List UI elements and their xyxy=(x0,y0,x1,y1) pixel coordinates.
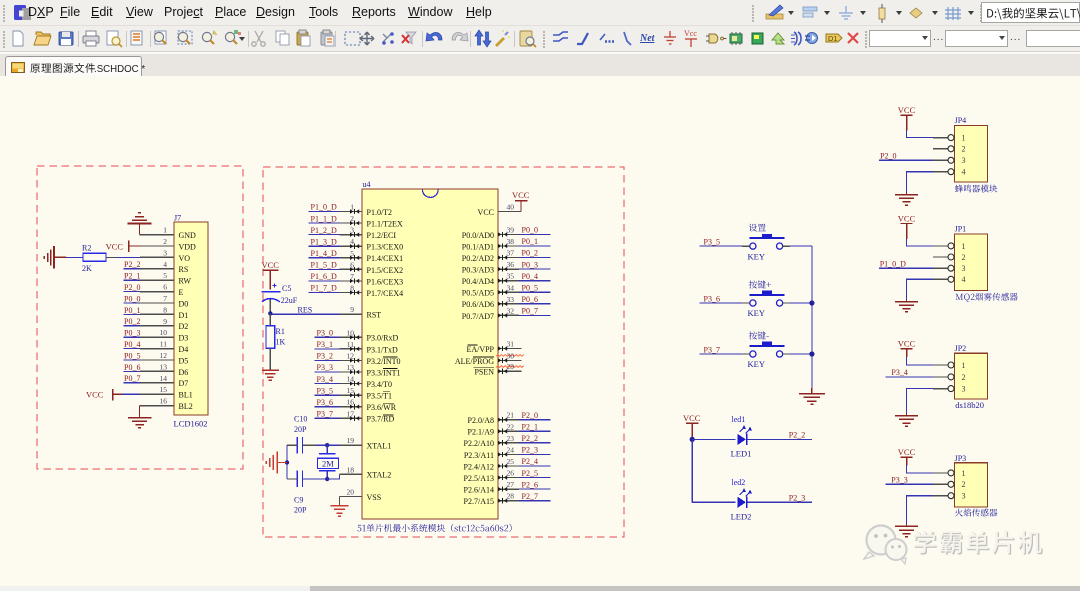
wire P3_3 to JP3 xyxy=(886,483,933,485)
wire J7 pin5 xyxy=(124,279,141,281)
svg-text:1: 1 xyxy=(962,469,966,478)
svg-text:D4: D4 xyxy=(179,345,189,354)
wire J7 pin7 xyxy=(124,302,141,304)
svg-text:led2: led2 xyxy=(732,478,746,487)
svg-text:KEY: KEY xyxy=(748,359,765,369)
capacitor C9 20P xyxy=(287,471,327,515)
svg-text:P2_2: P2_2 xyxy=(789,431,805,440)
svg-text:P0.6/AD6: P0.6/AD6 xyxy=(462,300,494,309)
svg-text:P3_3: P3_3 xyxy=(317,363,333,372)
wire U4 pin31 EA xyxy=(498,348,521,350)
svg-text:34: 34 xyxy=(507,283,515,292)
svg-text:18: 18 xyxy=(347,465,355,474)
svg-text:P3.4/T0: P3.4/T0 xyxy=(367,380,393,389)
svg-text:20P: 20P xyxy=(294,425,307,434)
wire J7 pin4 xyxy=(124,268,141,270)
wire U4 pin11 xyxy=(315,348,340,350)
ground below JP3 xyxy=(895,524,918,536)
svg-text:4: 4 xyxy=(163,260,167,269)
svg-text:9: 9 xyxy=(163,317,167,326)
svg-text:P3_1: P3_1 xyxy=(317,340,333,349)
svg-text:P3.6/WR: P3.6/WR xyxy=(367,403,397,412)
wire U4 pin14 xyxy=(315,383,340,385)
wire U4 pin5 xyxy=(309,257,340,259)
svg-text:6: 6 xyxy=(163,283,167,292)
svg-text:33: 33 xyxy=(507,295,515,304)
svg-text:P0_2: P0_2 xyxy=(522,249,538,258)
svg-text:C5: C5 xyxy=(282,284,291,293)
svg-text:30: 30 xyxy=(507,351,515,360)
svg-text:D7: D7 xyxy=(179,379,189,388)
U4 left pin numbers xyxy=(347,203,355,497)
pushbutton S3 KEY P3_7 xyxy=(748,331,785,369)
svg-text:P3_4: P3_4 xyxy=(317,375,333,384)
svg-text:P0_3: P0_3 xyxy=(522,260,538,269)
svg-text:P2.6/A14: P2.6/A14 xyxy=(464,486,494,495)
svg-text:14: 14 xyxy=(347,375,355,384)
svg-text:7: 7 xyxy=(350,272,354,281)
net label RES wire to RST xyxy=(270,305,362,314)
svg-text:15: 15 xyxy=(160,385,168,394)
svg-text:21: 21 xyxy=(507,411,515,420)
svg-text:P0.5/AD5: P0.5/AD5 xyxy=(462,289,494,298)
svg-text:35: 35 xyxy=(507,272,515,281)
wire U4 pin29 PSEN xyxy=(496,366,524,368)
svg-text:P0_3: P0_3 xyxy=(124,329,140,338)
wire J7 pin10 xyxy=(124,336,141,338)
svg-text:P3_6: P3_6 xyxy=(704,294,720,303)
power port VCC at U4 pin40 xyxy=(498,190,530,212)
svg-text:EA/VPP: EA/VPP xyxy=(466,345,494,354)
wire P3_5 to S1 xyxy=(699,245,742,247)
junction crystal gnd node xyxy=(285,460,289,464)
wire J7 pin11 xyxy=(124,348,141,350)
J7 pin numbers xyxy=(160,226,168,406)
wire J7 pin13 xyxy=(124,370,141,372)
svg-text:38: 38 xyxy=(507,237,515,246)
wire J7 pin9 xyxy=(124,325,141,327)
svg-text:PSEN: PSEN xyxy=(474,368,494,377)
svg-text:P2.3/A11: P2.3/A11 xyxy=(464,451,494,460)
U4 value label 51 MCU caption xyxy=(357,524,511,532)
resistor R2 xyxy=(82,244,106,274)
svg-text:VCC: VCC xyxy=(898,213,916,223)
svg-text:P2_5: P2_5 xyxy=(522,469,538,478)
svg-text:P2_1: P2_1 xyxy=(124,272,140,281)
svg-text:7: 7 xyxy=(163,294,167,303)
svg-text:P3_2: P3_2 xyxy=(317,352,333,361)
svg-text:24: 24 xyxy=(507,445,515,454)
connector J7 LCD1602 xyxy=(174,213,209,428)
wire S1 to bus xyxy=(783,245,790,247)
svg-text:3: 3 xyxy=(962,385,966,394)
svg-text:P3_5: P3_5 xyxy=(317,386,333,395)
wire U4 pin28 xyxy=(498,500,519,502)
svg-text:P0_6: P0_6 xyxy=(522,295,538,304)
svg-text:VCC: VCC xyxy=(86,390,104,400)
svg-text:VDD: VDD xyxy=(179,242,197,251)
caption JP3 xyxy=(955,509,998,517)
wire J7 pin14 xyxy=(124,382,141,384)
svg-text:5: 5 xyxy=(163,271,167,280)
svg-text:P3_5: P3_5 xyxy=(704,238,720,247)
wire U4 pin13 xyxy=(315,371,340,373)
wire U4 pin15 xyxy=(315,394,340,396)
svg-text:VCC: VCC xyxy=(898,339,916,349)
ground below keys xyxy=(799,388,825,404)
svg-text:D0: D0 xyxy=(179,299,189,308)
svg-text:P2_2: P2_2 xyxy=(522,434,538,443)
svg-text:6: 6 xyxy=(350,260,354,269)
wire J7 pin12 xyxy=(124,359,141,361)
svg-text:P0.4/AD4: P0.4/AD4 xyxy=(462,277,494,286)
svg-text:XTAL2: XTAL2 xyxy=(367,471,392,480)
svg-text:P2_2: P2_2 xyxy=(124,260,140,269)
svg-text:P0_0: P0_0 xyxy=(124,294,140,303)
svg-text:GND: GND xyxy=(179,231,197,240)
wire LED2 to P2_3 xyxy=(747,501,812,503)
svg-text:4: 4 xyxy=(350,237,354,246)
svg-text:RW: RW xyxy=(179,277,192,286)
svg-text:P1_7_D: P1_7_D xyxy=(311,284,337,293)
svg-text:P2.1/A9: P2.1/A9 xyxy=(468,428,494,437)
junction LED1 node xyxy=(690,437,695,442)
svg-text:P2_0: P2_0 xyxy=(522,411,538,420)
svg-text:17: 17 xyxy=(347,409,355,418)
svg-text:D2: D2 xyxy=(179,322,189,331)
svg-text:P3_7: P3_7 xyxy=(704,345,720,354)
wire J7 pin2 xyxy=(141,245,175,247)
svg-text:LED1: LED1 xyxy=(731,448,752,458)
svg-text:P0.2/AD2: P0.2/AD2 xyxy=(462,254,494,263)
wire J7 pin8 xyxy=(124,313,141,315)
svg-text:P2_6: P2_6 xyxy=(522,480,538,489)
wire gnd to R2 xyxy=(66,256,83,258)
svg-text:2: 2 xyxy=(962,480,966,489)
svg-text:1: 1 xyxy=(350,203,354,212)
svg-text:u4: u4 xyxy=(363,180,371,189)
wire U4 pin21 xyxy=(498,419,519,421)
svg-text:13: 13 xyxy=(160,362,168,371)
svg-text:5: 5 xyxy=(350,249,354,258)
svg-text:22uF: 22uF xyxy=(281,296,298,305)
svg-text:P0_0: P0_0 xyxy=(522,226,538,235)
wire U4 pin25 xyxy=(498,465,519,467)
wire U4 pin30 ALE xyxy=(496,355,524,357)
junction RES node xyxy=(268,311,272,315)
wire XTAL2 xyxy=(327,474,339,479)
power port VCC at JP4 xyxy=(898,105,916,131)
wire J7 pin15 xyxy=(122,393,140,395)
ground below VSS xyxy=(331,506,349,516)
wire U4 pin24 xyxy=(498,453,519,455)
svg-text:11: 11 xyxy=(347,340,354,349)
wire U4 pin37 xyxy=(498,257,519,259)
watermark logo xyxy=(915,532,1043,555)
wire LED1 to P2_2 xyxy=(747,438,812,440)
wire J7 pin1 xyxy=(140,234,175,236)
svg-text:P1_1_D: P1_1_D xyxy=(311,214,337,223)
svg-text:8: 8 xyxy=(163,305,167,314)
wire P2_0 to JP4 xyxy=(879,159,933,161)
power port VCC at JP1 xyxy=(898,213,916,239)
svg-text:P3_3: P3_3 xyxy=(891,476,907,485)
svg-text:P3.1/TxD: P3.1/TxD xyxy=(367,345,399,354)
power port VCC at JP2 xyxy=(898,339,916,358)
svg-text:P3.0/RxD: P3.0/RxD xyxy=(367,334,399,343)
svg-text:20: 20 xyxy=(347,487,355,496)
wire VCC to LED1 xyxy=(692,438,735,440)
svg-text:P2.5/A13: P2.5/A13 xyxy=(464,474,494,483)
wire VCC to JP2 pin1 xyxy=(907,357,933,365)
svg-text:15: 15 xyxy=(347,386,355,395)
ground below JP4 xyxy=(895,193,918,205)
svg-text:P2_3: P2_3 xyxy=(789,494,805,503)
pushbutton S2 KEY P3_6 xyxy=(748,280,785,318)
wire U4 pin26 xyxy=(498,477,519,479)
svg-text:P1.6/CEX3: P1.6/CEX3 xyxy=(367,277,404,286)
svg-text:2: 2 xyxy=(350,214,354,223)
microcontroller U4 xyxy=(362,180,498,519)
svg-text:20P: 20P xyxy=(294,505,307,514)
svg-text:P0_5: P0_5 xyxy=(522,283,538,292)
power port VCC at LEDs xyxy=(683,413,701,438)
svg-text:P0_2: P0_2 xyxy=(124,317,140,326)
wire LEDs vertical xyxy=(691,439,693,502)
power port VCC at J7 pin15 xyxy=(86,389,122,401)
ground left of crystal xyxy=(266,452,287,474)
wire VCC to JP3 pin1 xyxy=(907,465,933,473)
wire U4 pin23 xyxy=(498,442,519,444)
wire JP2 gnd pin xyxy=(933,388,948,390)
connector JP4 buzzer xyxy=(948,116,988,182)
svg-text:P2.7/A15: P2.7/A15 xyxy=(464,497,494,506)
wire U4 pin35 xyxy=(498,280,519,282)
svg-text:E: E xyxy=(179,288,184,297)
crystal Y1 2M xyxy=(318,445,339,479)
svg-text:P0_7: P0_7 xyxy=(124,374,140,383)
svg-text:25: 25 xyxy=(507,457,515,466)
svg-text:P1_2_D: P1_2_D xyxy=(311,226,337,235)
svg-text:3: 3 xyxy=(962,156,966,165)
connector JP3 flame xyxy=(948,454,988,507)
svg-text:2: 2 xyxy=(962,373,966,382)
svg-text:3: 3 xyxy=(962,492,966,501)
svg-text:P1.3/CEX0: P1.3/CEX0 xyxy=(367,243,404,252)
wire U4 pin3 xyxy=(309,234,340,236)
svg-text:P2_0: P2_0 xyxy=(880,152,896,161)
svg-text:VCC: VCC xyxy=(262,260,280,270)
svg-text:39: 39 xyxy=(507,225,515,234)
svg-text:P0_6: P0_6 xyxy=(124,363,140,372)
svg-text:JP2: JP2 xyxy=(955,344,967,353)
svg-text:ds18b20: ds18b20 xyxy=(955,400,984,410)
wire U4 pin8 xyxy=(309,291,340,293)
wire U4 pin12 xyxy=(315,359,340,361)
wire U4 pin6 xyxy=(309,268,340,270)
svg-text:D3: D3 xyxy=(179,334,189,343)
svg-text:28: 28 xyxy=(507,492,515,501)
svg-text:KEY: KEY xyxy=(748,251,765,261)
svg-text:9: 9 xyxy=(350,305,354,314)
wire S2 to bus xyxy=(783,302,790,304)
svg-text:P3_6: P3_6 xyxy=(317,398,333,407)
ground below R1 xyxy=(262,370,279,380)
svg-text:led1: led1 xyxy=(732,415,746,424)
svg-text:3: 3 xyxy=(163,248,167,257)
svg-text:2: 2 xyxy=(163,237,167,246)
svg-text:16: 16 xyxy=(347,398,355,407)
wire JP3 gnd pin xyxy=(933,495,948,497)
svg-text:P0_1: P0_1 xyxy=(124,306,140,315)
svg-text:JP4: JP4 xyxy=(955,116,967,125)
svg-text:14: 14 xyxy=(160,374,168,383)
wire VCC to JP1 pin1 xyxy=(907,239,933,246)
wire J7 pin6 xyxy=(124,291,141,293)
svg-text:VCC: VCC xyxy=(898,105,916,115)
svg-text:P3_7: P3_7 xyxy=(317,409,333,418)
svg-text:P0_5: P0_5 xyxy=(124,351,140,360)
svg-text:2M: 2M xyxy=(322,459,334,469)
svg-text:C9: C9 xyxy=(294,495,303,504)
svg-text:26: 26 xyxy=(507,469,515,478)
svg-text:10: 10 xyxy=(160,328,168,337)
svg-text:P1.0/T2: P1.0/T2 xyxy=(367,208,393,217)
wire U4 pin1 xyxy=(309,211,340,213)
svg-text:P2_0: P2_0 xyxy=(124,283,140,292)
U4 right pin numbers xyxy=(507,203,515,501)
svg-text:P1.4/CEX1: P1.4/CEX1 xyxy=(367,254,404,263)
wire R2 to J7 pin3 xyxy=(106,256,117,258)
svg-text:29: 29 xyxy=(507,362,515,371)
svg-text:1K: 1K xyxy=(276,338,286,347)
svg-text:LED2: LED2 xyxy=(731,511,752,521)
wire S3 to bus xyxy=(783,353,790,355)
ground above J7 pin1 xyxy=(128,213,152,235)
wire U4 pin38 xyxy=(498,245,519,247)
svg-text:12: 12 xyxy=(347,351,355,360)
svg-text:P1.2/ECI: P1.2/ECI xyxy=(367,231,397,240)
svg-text:12: 12 xyxy=(160,351,168,360)
connector JP1 MQ2 xyxy=(948,225,988,291)
wire keys vertical xyxy=(811,246,813,388)
svg-text:P1_0_D: P1_0_D xyxy=(311,203,337,212)
junction XTAL1 node xyxy=(325,443,329,447)
svg-text:P2_1: P2_1 xyxy=(522,422,538,431)
svg-text:VCC: VCC xyxy=(512,190,530,200)
svg-text:VCC: VCC xyxy=(478,208,494,217)
svg-text:P3.5/T1: P3.5/T1 xyxy=(367,392,393,401)
wire P1_0_D to JP1 xyxy=(879,267,933,269)
svg-text:P0.0/AD0: P0.0/AD0 xyxy=(462,231,494,240)
wire P3_4 to JP2 xyxy=(886,376,933,378)
svg-text:P0_4: P0_4 xyxy=(522,272,538,281)
svg-text:1: 1 xyxy=(163,226,167,235)
svg-text:8: 8 xyxy=(350,283,354,292)
svg-text:P1_4_D: P1_4_D xyxy=(311,249,337,258)
module box LCD xyxy=(37,166,243,469)
wire VCC to JP4 pin1 xyxy=(907,131,933,138)
svg-text:1: 1 xyxy=(962,242,966,251)
wire P3_6 to S2 xyxy=(699,302,742,304)
power port VCC at J7 pin2 xyxy=(106,241,141,253)
svg-text:32: 32 xyxy=(507,306,515,315)
svg-text:P3.3/INT1: P3.3/INT1 xyxy=(367,368,401,377)
wire U4 pin34 xyxy=(498,291,519,293)
svg-text:11: 11 xyxy=(160,340,167,349)
wire P3_7 to S3 xyxy=(699,353,742,355)
wire U4 pin7 xyxy=(309,280,340,282)
wire U4 pin16 xyxy=(315,406,340,408)
svg-text:ALE/PROG: ALE/PROG xyxy=(455,357,494,366)
svg-text:1: 1 xyxy=(962,361,966,370)
svg-text:3: 3 xyxy=(962,264,966,273)
ground below JP1 xyxy=(895,300,918,312)
wire VCC to LED2 xyxy=(692,501,735,503)
connector JP2 ds18b20 xyxy=(948,344,988,399)
svg-text:VCC: VCC xyxy=(106,241,124,251)
svg-text:P1.5/CEX2: P1.5/CEX2 xyxy=(367,266,404,275)
wire XTAL1 xyxy=(327,444,339,446)
ground below J7 pin16 xyxy=(128,406,152,428)
svg-text:P0.1/AD1: P0.1/AD1 xyxy=(462,242,494,251)
svg-text:P0.7/AD7: P0.7/AD7 xyxy=(462,312,494,321)
caption JP1 xyxy=(956,293,1018,302)
wire U4 pin32 xyxy=(498,314,519,316)
svg-text:P1.7/CEX4: P1.7/CEX4 xyxy=(367,289,404,298)
svg-text:P2.2/A10: P2.2/A10 xyxy=(464,439,494,448)
svg-text:1: 1 xyxy=(962,134,966,143)
wire U4 pin36 xyxy=(498,268,519,270)
svg-text:10: 10 xyxy=(347,328,355,337)
svg-text:JP1: JP1 xyxy=(955,225,967,234)
svg-text:P1.1/T2EX: P1.1/T2EX xyxy=(367,219,403,228)
svg-text:D6: D6 xyxy=(179,368,189,377)
svg-text:R1: R1 xyxy=(276,327,285,336)
svg-text:36: 36 xyxy=(507,260,515,269)
wire crystal left vertical xyxy=(286,445,288,479)
svg-text:P2.4/A12: P2.4/A12 xyxy=(464,462,494,471)
svg-text:RES: RES xyxy=(298,305,313,314)
svg-text:P3_4: P3_4 xyxy=(891,368,907,377)
ground left of R2 xyxy=(44,246,66,268)
wire U4 pin17 xyxy=(315,417,340,419)
svg-text:2: 2 xyxy=(962,253,966,262)
svg-text:16: 16 xyxy=(160,397,168,406)
svg-text:37: 37 xyxy=(507,249,515,258)
wire JP1 gnd pin xyxy=(933,278,948,280)
svg-text:19: 19 xyxy=(347,436,355,445)
ground below JP2 xyxy=(895,414,918,426)
wire U4 pin2 xyxy=(309,222,340,224)
svg-text:P2_3: P2_3 xyxy=(522,446,538,455)
svg-text:P0_1: P0_1 xyxy=(522,237,538,246)
svg-text:RS: RS xyxy=(179,265,189,274)
svg-text:31: 31 xyxy=(507,340,515,349)
svg-text:VCC: VCC xyxy=(683,413,701,423)
svg-text:23: 23 xyxy=(507,434,515,443)
svg-text:P1_3_D: P1_3_D xyxy=(311,237,337,246)
svg-text:22: 22 xyxy=(507,422,515,431)
svg-text:P0_7: P0_7 xyxy=(522,307,538,316)
svg-text:27: 27 xyxy=(507,480,515,489)
svg-text:2K: 2K xyxy=(82,264,92,273)
junction key3 node xyxy=(809,351,814,356)
LED LED1 xyxy=(731,415,752,459)
svg-text:D1: D1 xyxy=(179,311,189,320)
wire U4 pin39 xyxy=(498,233,519,235)
wire U4 pin27 xyxy=(498,488,519,490)
